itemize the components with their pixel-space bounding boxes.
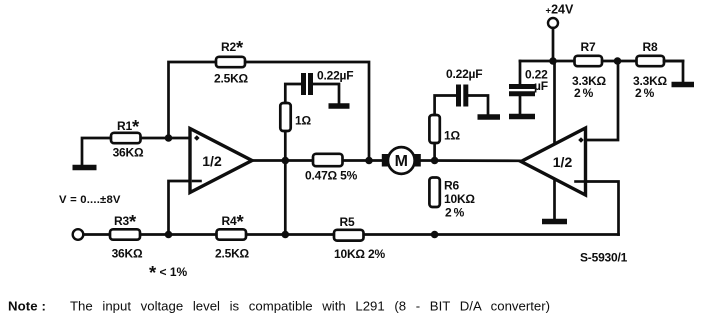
svg-text:1/2: 1/2 [202, 153, 222, 169]
svg-text:+24V: +24V [546, 3, 574, 17]
svg-text:M: M [395, 153, 408, 170]
wire: R1 right to op-amp U1 + input [140, 137, 190, 140]
svg-text:2.5KΩ: 2.5KΩ [214, 72, 249, 86]
svg-text:S-5930/1: S-5930/1 [580, 251, 628, 265]
wire: U2 + input to R7/R8 node [586, 61, 619, 140]
resistor 0.47 ohm [313, 154, 343, 166]
node: output-rail junction [282, 231, 290, 239]
wire: R8 to ground [664, 61, 683, 82]
svg-text:µF: µF [534, 79, 548, 93]
ground [73, 165, 97, 171]
capacitor 0.22uF (right) [509, 87, 535, 94]
wire: 1 ohm branch vertical (left) [285, 84, 302, 161]
svg-text:Note :: Note : [8, 299, 46, 314]
resistor R8 [637, 56, 665, 66]
resistor R6 [429, 178, 439, 208]
svg-text:0.22µF: 0.22µF [446, 67, 482, 81]
resistor 1 ohm (right) [429, 115, 439, 143]
svg-text:R8: R8 [643, 40, 658, 54]
wire: +24V to rail [552, 28, 555, 61]
resistor R1 [111, 133, 141, 143]
node: U1 output junction [282, 157, 290, 165]
svg-text:10KΩ 2%: 10KΩ 2% [334, 247, 385, 261]
resistor R3 [110, 229, 140, 239]
wire: +24V rail [520, 60, 683, 63]
node: motor-right junction [431, 157, 439, 165]
resistor 1 ohm (left) [280, 103, 290, 131]
node: R7/R8 junction [614, 57, 622, 65]
wire: cap to ground (middle) [468, 96, 489, 115]
ground [672, 82, 695, 88]
power terminal +24V [548, 18, 558, 28]
wire: V+ supply to U2 [553, 61, 556, 150]
ground [478, 114, 501, 120]
ground [542, 219, 567, 225]
wire: motor to op-amp U2 output [421, 159, 521, 162]
resistor R2 [216, 57, 245, 67]
node: motor-left junction [365, 157, 373, 165]
capacitor 0.22uF (left) [304, 73, 311, 95]
svg-text:The input voltage level is com: The input voltage level is compatible wi… [70, 299, 550, 314]
svg-text:1Ω: 1Ω [295, 114, 311, 128]
svg-text:0.47Ω 5%: 0.47Ω 5% [305, 169, 358, 183]
wire: feedback node up to R2 and across top [169, 62, 217, 138]
wire: 1 ohm branch vertical (right) [435, 96, 457, 161]
ground [509, 114, 535, 120]
resistor R7 [575, 56, 603, 66]
node: U1 + input junction [165, 134, 173, 142]
wire: output node down to bottom rail [284, 161, 287, 235]
op-amp U1 [190, 129, 252, 193]
svg-text:V = 0....±8V: V = 0....±8V [59, 194, 121, 206]
svg-text:2%: 2% [574, 86, 594, 100]
wire: R2 right to motor-left node [245, 62, 370, 161]
node: R6 bottom junction [431, 231, 439, 239]
svg-text:R6: R6 [444, 179, 459, 193]
motor M [388, 147, 415, 174]
svg-text:10KΩ: 10KΩ [444, 192, 475, 206]
wire: U2 - input to bottom rail [586, 182, 619, 235]
svg-text:2.5KΩ: 2.5KΩ [215, 247, 250, 261]
wire: U1 output to motor [252, 159, 385, 162]
op-amp U2 [521, 128, 586, 195]
wire: cap to ground (right) [519, 96, 522, 115]
resistor R4 [217, 229, 247, 239]
wire: R1 left lead to ground [82, 138, 111, 165]
capacitor 0.22uF (middle) [459, 85, 466, 107]
U2 + input marker [578, 137, 584, 143]
svg-text:1Ω: 1Ω [444, 129, 460, 143]
svg-text:R5: R5 [340, 215, 355, 229]
svg-text:1/2: 1/2 [553, 154, 573, 170]
node: R3/R4 junction [165, 231, 173, 239]
wire: U1 - input to bottom rail [169, 181, 191, 235]
svg-text:36KΩ: 36KΩ [113, 146, 144, 160]
U1 + input marker [194, 135, 200, 141]
U2 - input marker [576, 180, 584, 183]
svg-text:R7: R7 [581, 40, 596, 54]
ground [329, 103, 350, 109]
resistor R5 [334, 230, 364, 241]
svg-text:2%: 2% [445, 206, 465, 220]
wire: rail down to cap (right) [519, 61, 522, 85]
U1 - input marker [193, 180, 201, 183]
input terminal [73, 229, 84, 240]
svg-text:0.22µF: 0.22µF [317, 69, 353, 83]
node: +24V junction [549, 57, 557, 65]
svg-text:36KΩ: 36KΩ [112, 247, 143, 261]
svg-text:2%: 2% [635, 86, 655, 100]
wire: U2 to ground [553, 175, 556, 219]
wire: cap to ground (left) [312, 84, 339, 104]
wire: bottom rail [84, 233, 619, 236]
